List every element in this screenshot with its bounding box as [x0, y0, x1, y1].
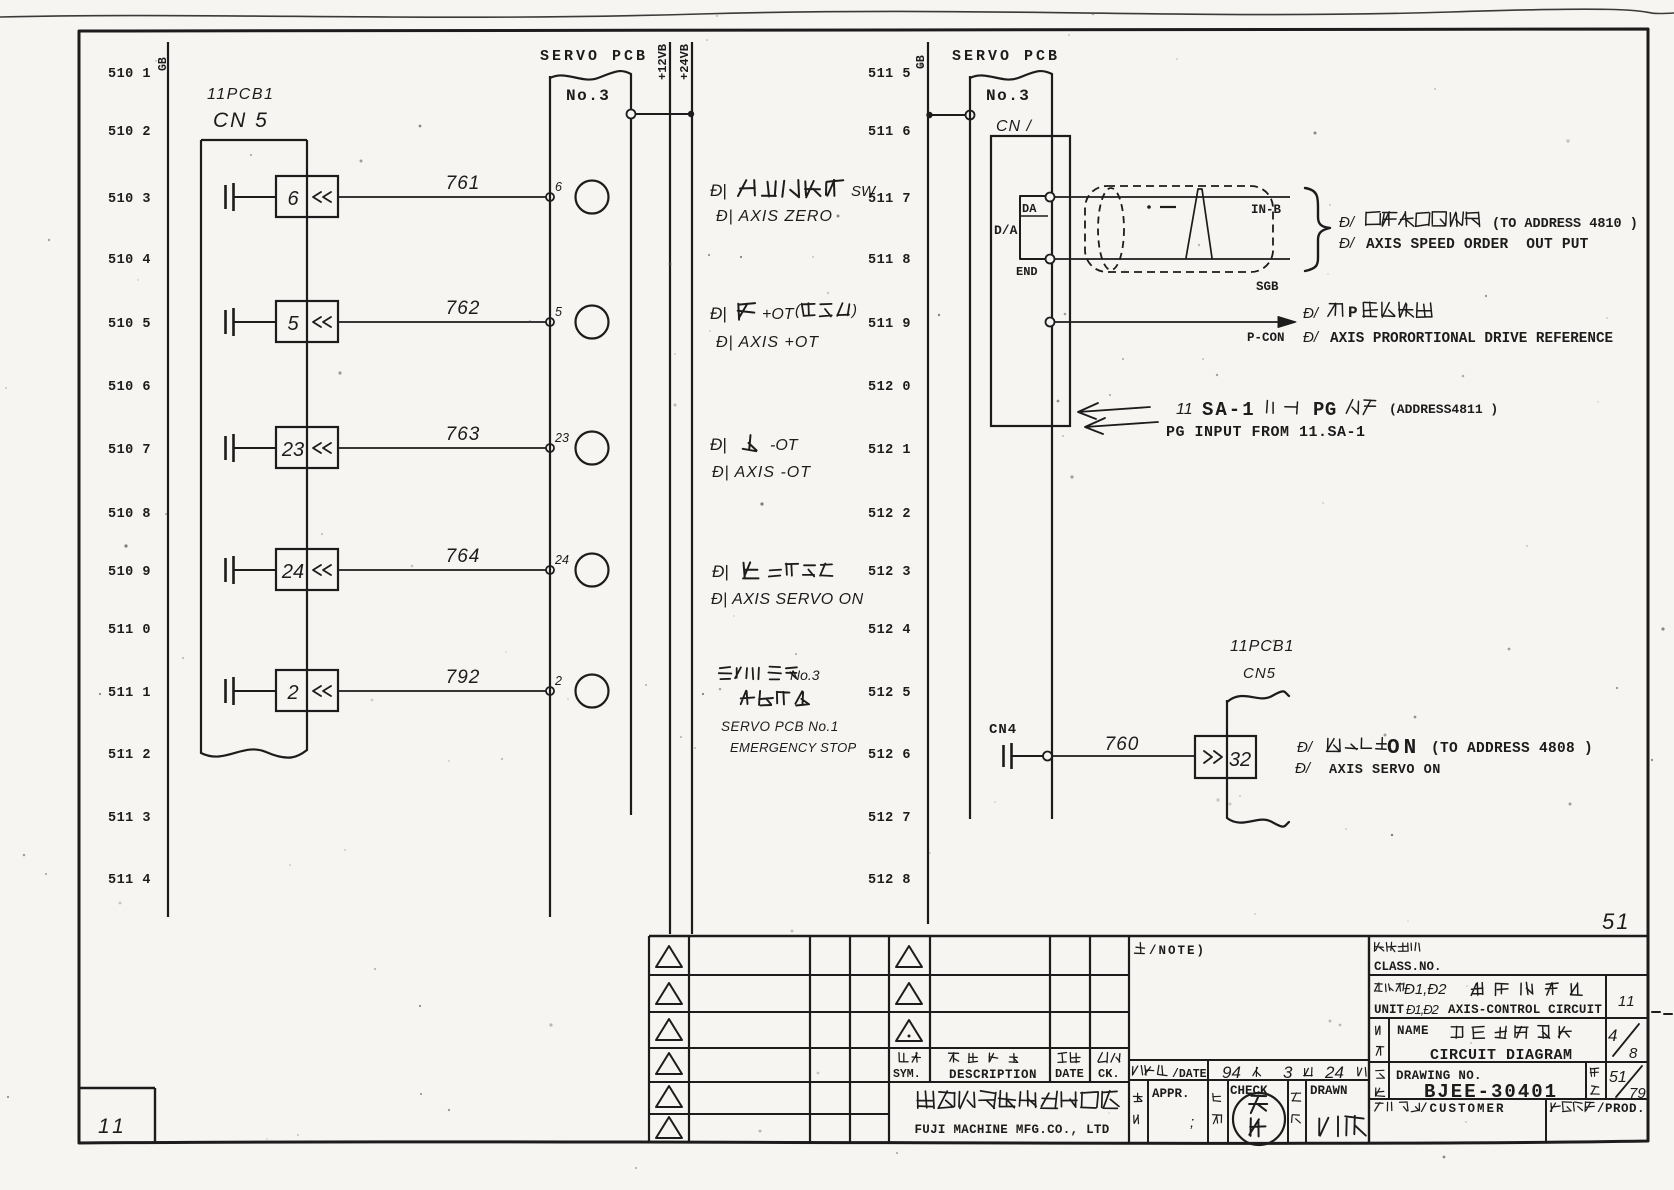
wire 762 [338, 298, 546, 322]
contact pin 23 (CN5) [226, 434, 277, 462]
annotation servo pcb emergency stop [719, 667, 857, 755]
svg-text:23: 23 [554, 431, 569, 445]
svg-text:510 1: 510 1 [108, 67, 151, 82]
revision header CK [1098, 1053, 1120, 1082]
svg-text:510 4: 510 4 [108, 253, 151, 268]
svg-text:No.3: No.3 [566, 87, 610, 105]
unit cell D1 D2 axis control circuit [1374, 981, 1602, 1017]
svg-text:510 7: 510 7 [108, 443, 151, 458]
svg-text:510 9: 510 9 [108, 565, 151, 580]
svg-text:511 9: 511 9 [868, 317, 911, 332]
wire 760 [1052, 734, 1195, 756]
node pin 24 on SERVO PCB No.3 [546, 566, 554, 574]
svg-text:94: 94 [1222, 1063, 1241, 1082]
pin box 24 (CN5) [276, 549, 338, 590]
svg-text:11: 11 [1618, 993, 1636, 1010]
svg-text:511 3: 511 3 [108, 811, 151, 826]
connector CN5 body [201, 140, 307, 758]
page fraction 51/79 [1590, 1066, 1646, 1102]
svg-text:792: 792 [446, 667, 481, 688]
annotation D1 axis proportional drive reference [1303, 302, 1613, 347]
svg-text:2: 2 [554, 674, 562, 688]
svg-text:51: 51 [1602, 909, 1630, 934]
svg-text:ON: ON [1387, 737, 1420, 760]
svg-text:DATE: DATE [1055, 1067, 1084, 1081]
svg-text:Đ/: Đ/ [1295, 760, 1312, 777]
svg-text:32: 32 [1229, 749, 1251, 771]
svg-text:512 5: 512 5 [868, 686, 911, 701]
wire P-CON [1055, 317, 1297, 346]
svg-text:4: 4 [1608, 1026, 1617, 1045]
svg-text:23: 23 [281, 439, 304, 461]
svg-text:UNIT: UNIT [1374, 1003, 1405, 1017]
svg-text:760: 760 [1105, 734, 1140, 755]
svg-text:Đ| AXIS -OT: Đ| AXIS -OT [712, 464, 811, 481]
node pin 2 on SERVO PCB No.3 [546, 687, 554, 695]
company name FUJI MACHINE MFG [914, 1091, 1118, 1137]
pin circle 24 (SERVO PCB) [576, 554, 609, 587]
pin circle 6 (SERVO PCB) [576, 181, 609, 214]
customer cell [1375, 1102, 1506, 1116]
svg-text:Đ/: Đ/ [1297, 739, 1314, 756]
svg-text:P: P [1348, 304, 1358, 322]
junction dot on +24VB rail [688, 111, 694, 117]
svg-text:DRAWN: DRAWN [1310, 1084, 1348, 1098]
svg-text:510 2: 510 2 [108, 125, 151, 140]
pin circle 23 (SERVO PCB) [576, 432, 609, 465]
pin box 32 (CN5 right) [1195, 736, 1256, 778]
svg-text:+24VB: +24VB [678, 44, 692, 80]
annotation D1 axis speed order output [1339, 212, 1638, 253]
svg-text:11: 11 [98, 1115, 128, 1138]
prod cell [1550, 1102, 1645, 1116]
svg-text:+OT: +OT [762, 306, 795, 323]
svg-text:(TO ADDRESS 4808 ): (TO ADDRESS 4808 ) [1431, 741, 1593, 757]
svg-text:PG INPUT FROM 11.SA-1: PG INPUT FROM 11.SA-1 [1166, 424, 1366, 441]
svg-text:8: 8 [1629, 1045, 1638, 1062]
name cell circuit diagram [1376, 1024, 1573, 1064]
wire GB to panel (y115) [928, 114, 966, 116]
svg-text:No.3: No.3 [986, 87, 1030, 105]
svg-text:Đ|: Đ| [710, 181, 727, 200]
net GB (right bus) [915, 42, 928, 924]
svg-text:511 0: 511 0 [108, 623, 151, 638]
svg-text:/CUSTOMER: /CUSTOMER [1420, 1102, 1506, 1116]
svg-text:-OT: -OT [770, 437, 799, 454]
svg-text:SA-1: SA-1 [1202, 399, 1256, 421]
cell APPR [1133, 1087, 1194, 1131]
svg-text:Đ/: Đ/ [1339, 214, 1356, 231]
svg-text:6: 6 [287, 188, 299, 210]
node pin 6 on SERVO PCB No.3 [546, 193, 554, 201]
approval row grid [1148, 1080, 1306, 1142]
pin box 5 (CN5) [276, 301, 338, 342]
power rail +12VB [656, 42, 670, 934]
svg-text:512 0: 512 0 [868, 380, 911, 395]
svg-text:Đ| AXIS +OT: Đ| AXIS +OT [716, 334, 819, 351]
svg-text:511 2: 511 2 [108, 748, 151, 763]
annotation D1 axis +OT [710, 302, 857, 351]
node DA [1046, 193, 1055, 202]
connector CN1 body [991, 136, 1070, 426]
pulse symbol [1186, 189, 1212, 258]
revision symbol triangles (left column) [656, 946, 682, 1138]
wire 792 [338, 667, 546, 691]
pin circle 2 (SERVO PCB) [576, 675, 609, 708]
svg-text:AXIS SPEED ORDER OUT PUT: AXIS SPEED ORDER OUT PUT [1366, 237, 1589, 253]
svg-text:(ADDRESS4811 ): (ADDRESS4811 ) [1389, 402, 1498, 417]
svg-text:11PCB1: 11PCB1 [1230, 638, 1294, 655]
svg-text:3: 3 [1283, 1063, 1293, 1082]
svg-text:FUJI MACHINE MFG.CO., LTD: FUJI MACHINE MFG.CO., LTD [914, 1123, 1109, 1137]
svg-text:(TO ADDRESS 4810 ): (TO ADDRESS 4810 ) [1492, 217, 1638, 232]
svg-text:END: END [1016, 265, 1038, 279]
svg-text:AXIS-CONTROL CIRCUIT: AXIS-CONTROL CIRCUIT [1448, 1003, 1602, 1017]
wire 763 [338, 424, 546, 448]
svg-text:Đ/: Đ/ [1303, 305, 1320, 322]
svg-text:761: 761 [446, 173, 481, 194]
node P-CON [1046, 318, 1055, 327]
svg-text:CN 5: CN 5 [213, 109, 269, 132]
svg-text:Đ/: Đ/ [1339, 235, 1356, 252]
svg-text:AXIS PRORORTIONAL DRIVE REFERE: AXIS PRORORTIONAL DRIVE REFERENCE [1330, 331, 1613, 347]
brace speed order [1305, 188, 1330, 271]
drawing no cell [1376, 1069, 1559, 1103]
svg-text:79: 79 [1629, 1085, 1646, 1102]
svg-text:6: 6 [555, 180, 562, 194]
svg-text:GB: GB [157, 57, 170, 71]
svg-text:SERVO PCB No.1: SERVO PCB No.1 [721, 719, 839, 734]
svg-text:510 8: 510 8 [108, 507, 151, 522]
svg-text:P-CON: P-CON [1247, 331, 1285, 345]
power rail +24VB [678, 42, 692, 934]
svg-text:GB: GB [915, 55, 928, 69]
svg-text:512 2: 512 2 [868, 507, 911, 522]
wire SGB [1055, 259, 1291, 294]
svg-text:512 3: 512 3 [868, 565, 911, 580]
svg-text:APPR.: APPR. [1152, 1087, 1190, 1101]
svg-text:CN /: CN / [996, 118, 1033, 135]
svg-text:DA: DA [1022, 202, 1037, 216]
svg-text:2: 2 [286, 682, 298, 704]
svg-text:510 5: 510 5 [108, 317, 151, 332]
annotation PG input from 11SA-1 [1166, 399, 1498, 441]
svg-text:510 3: 510 3 [108, 192, 151, 207]
node labels 5115-5128 [868, 67, 911, 888]
svg-text:SERVO PCB: SERVO PCB [952, 48, 1060, 65]
svg-text:+12VB: +12VB [656, 44, 670, 80]
svg-text:PG: PG [1313, 399, 1337, 421]
svg-text:763: 763 [446, 424, 481, 445]
svg-text:24: 24 [281, 561, 304, 583]
contact CN4 [1004, 743, 1044, 769]
arrow PG input 2 [1085, 418, 1158, 434]
svg-text:IN-B: IN-B [1251, 203, 1282, 217]
pin box 23 (CN5) [276, 427, 338, 468]
pin box 2 (CN5) [276, 670, 338, 711]
node labels 5101-5114 [108, 67, 151, 888]
revision header SYM [893, 1053, 921, 1082]
svg-text:11PCB1: 11PCB1 [207, 86, 274, 103]
page fraction 4/8 [1608, 1024, 1639, 1062]
sheet number box [79, 1088, 155, 1142]
contact pin 24 (CN5) [226, 556, 277, 584]
pin circle 5 (SERVO PCB) [576, 306, 609, 339]
svg-text:511 4: 511 4 [108, 873, 151, 888]
svg-text:SYM.: SYM. [893, 1068, 921, 1081]
annotation D1 axis servo on [1295, 737, 1593, 778]
node on panel edge (y114) [627, 110, 636, 119]
pin box 6 (CN5) [276, 176, 338, 217]
class no cell [1374, 942, 1442, 974]
svg-text:): ) [850, 302, 857, 319]
svg-text:24: 24 [554, 553, 569, 567]
net GB (left bus) [157, 42, 170, 917]
svg-text:CIRCUIT DIAGRAM: CIRCUIT DIAGRAM [1430, 1047, 1573, 1064]
svg-text:51: 51 [1609, 1069, 1627, 1086]
cell DRAWN with signature [1291, 1084, 1365, 1136]
cell CHECK with stamp [1213, 1084, 1286, 1145]
node pin 23 on SERVO PCB No.3 [546, 444, 554, 452]
svg-text:/DATE: /DATE [1172, 1068, 1207, 1081]
svg-text:511 5: 511 5 [868, 67, 911, 82]
svg-text:764: 764 [446, 546, 481, 567]
junction dot on right GB bus [926, 112, 932, 118]
revision symbol triangles (middle column) [896, 946, 922, 1041]
svg-text:CN5: CN5 [1243, 665, 1276, 682]
svg-text:EMERGENCY STOP: EMERGENCY STOP [730, 740, 857, 755]
svg-text:Đ|: Đ| [710, 304, 727, 323]
date row grid [1129, 1060, 1369, 1142]
wire IN-B [1055, 197, 1291, 217]
svg-text:5: 5 [555, 305, 562, 319]
svg-text:/PROD.: /PROD. [1597, 1102, 1645, 1116]
svg-text:511 1: 511 1 [108, 686, 151, 701]
svg-text:;: ; [1190, 1114, 1194, 1131]
D/A converter block [994, 196, 1049, 279]
node pin 5 on SERVO PCB No.3 [546, 318, 554, 326]
svg-text:CN4: CN4 [989, 722, 1017, 738]
revision header DATE [1055, 1053, 1084, 1082]
svg-text:Đ1,Đ2: Đ1,Đ2 [1404, 981, 1447, 998]
annotation D1 axis interlock [711, 562, 864, 608]
svg-text:CK.: CK. [1098, 1067, 1120, 1081]
margin dashes [1652, 1012, 1672, 1014]
contact pin 5 (CN5) [226, 308, 277, 336]
svg-text:DESCRIPTION: DESCRIPTION [949, 1068, 1037, 1082]
PCB panel SERVO PCB No.3 (right) [952, 48, 1060, 819]
svg-text:762: 762 [446, 298, 481, 319]
wire panel to +24VB rail [636, 113, 693, 115]
svg-text:511 8: 511 8 [868, 253, 911, 268]
annotation D1 axis -OT [710, 435, 811, 481]
node END [1046, 255, 1055, 264]
svg-text:512 6: 512 6 [868, 748, 911, 763]
title section grid [1369, 936, 1648, 1142]
svg-text:Đ/: Đ/ [1303, 329, 1320, 346]
svg-text:11: 11 [1176, 401, 1193, 418]
svg-text:NAME: NAME [1397, 1024, 1429, 1038]
svg-text:SW: SW [851, 183, 877, 200]
svg-text:Đ|: Đ| [712, 562, 729, 581]
PCB panel SERVO PCB No.3 (left) [540, 48, 648, 917]
svg-text:512 4: 512 4 [868, 623, 911, 638]
svg-text:24: 24 [1324, 1063, 1344, 1082]
node CN4 on panel edge [1043, 752, 1052, 761]
svg-text:512 1: 512 1 [868, 443, 911, 458]
svg-text:510 6: 510 6 [108, 380, 151, 395]
svg-text:511 6: 511 6 [868, 125, 911, 140]
shielded cable (dashed) [1085, 186, 1273, 272]
svg-text:Đ|: Đ| [710, 435, 727, 454]
svg-text:CLASS.NO.: CLASS.NO. [1374, 960, 1442, 974]
stub 11PCB1 CN5 (right) [1227, 638, 1294, 827]
svg-text:512 7: 512 7 [868, 811, 911, 826]
svg-text:5: 5 [287, 313, 299, 335]
svg-text:No.3: No.3 [790, 667, 820, 683]
arrow PG input 1 [1078, 403, 1150, 419]
contact pin 6 (CN5) [226, 183, 277, 211]
svg-text:Đ| AXIS SERVO ON: Đ| AXIS SERVO ON [711, 591, 864, 608]
svg-text:Đ| AXIS ZERO: Đ| AXIS ZERO [716, 208, 833, 225]
wire 764 [338, 546, 546, 570]
node on right panel edge [966, 111, 975, 120]
revision header DESCRIPTION [949, 1053, 1038, 1082]
svg-text:BJEE-30401: BJEE-30401 [1424, 1081, 1558, 1103]
svg-text:SERVO PCB: SERVO PCB [540, 48, 648, 65]
svg-text:512 8: 512 8 [868, 873, 911, 888]
annotation D1 axis zero [710, 180, 877, 225]
note cell [1135, 943, 1207, 958]
svg-text:D/A: D/A [994, 223, 1018, 238]
wire 761 [338, 173, 546, 197]
contact pin 2 (CN5) [226, 677, 277, 705]
revision table grid [649, 936, 1648, 1142]
svg-text:Đ1,Đ2: Đ1,Đ2 [1406, 1002, 1440, 1017]
svg-text:AXIS SERVO ON: AXIS SERVO ON [1329, 763, 1441, 778]
date value 94-3-24 [1222, 1063, 1366, 1082]
svg-text:SGB: SGB [1256, 280, 1279, 294]
date label cell [1133, 1065, 1207, 1081]
svg-text:/NOTE): /NOTE) [1149, 944, 1206, 958]
